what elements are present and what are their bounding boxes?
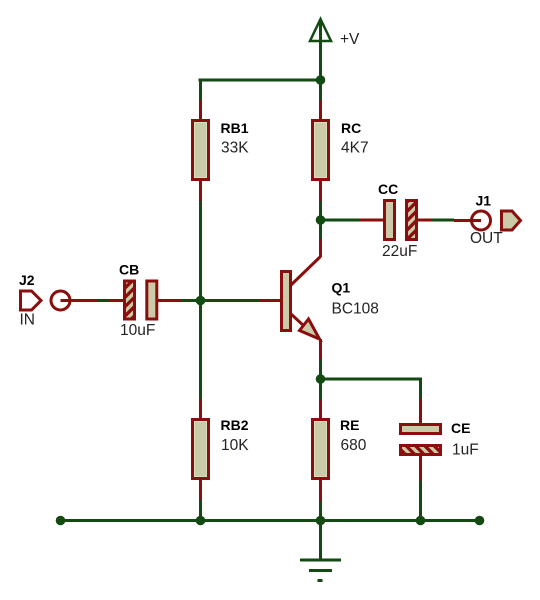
svg-text:RB2: RB2 bbox=[221, 417, 249, 433]
svg-text:RE: RE bbox=[340, 417, 359, 433]
svg-text:OUT: OUT bbox=[470, 230, 503, 247]
svg-text:RB1: RB1 bbox=[221, 120, 249, 136]
svg-text:BC108: BC108 bbox=[332, 301, 379, 318]
svg-text:J2: J2 bbox=[19, 272, 35, 288]
svg-text:J1: J1 bbox=[476, 193, 492, 209]
svg-text:IN: IN bbox=[20, 312, 36, 329]
svg-text:RC: RC bbox=[341, 120, 361, 136]
svg-text:10K: 10K bbox=[221, 437, 249, 454]
svg-text:CC: CC bbox=[378, 181, 398, 197]
svg-text:680: 680 bbox=[341, 437, 367, 454]
svg-text:CE: CE bbox=[451, 420, 470, 436]
svg-text:1uF: 1uF bbox=[452, 442, 479, 459]
svg-text:CB: CB bbox=[119, 262, 139, 278]
svg-text:Q1: Q1 bbox=[332, 280, 351, 296]
svg-text:10uF: 10uF bbox=[120, 322, 155, 339]
svg-text:22uF: 22uF bbox=[382, 243, 417, 260]
svg-text:33K: 33K bbox=[221, 140, 249, 157]
svg-text:+V: +V bbox=[340, 31, 360, 48]
svg-text:4K7: 4K7 bbox=[341, 140, 369, 157]
